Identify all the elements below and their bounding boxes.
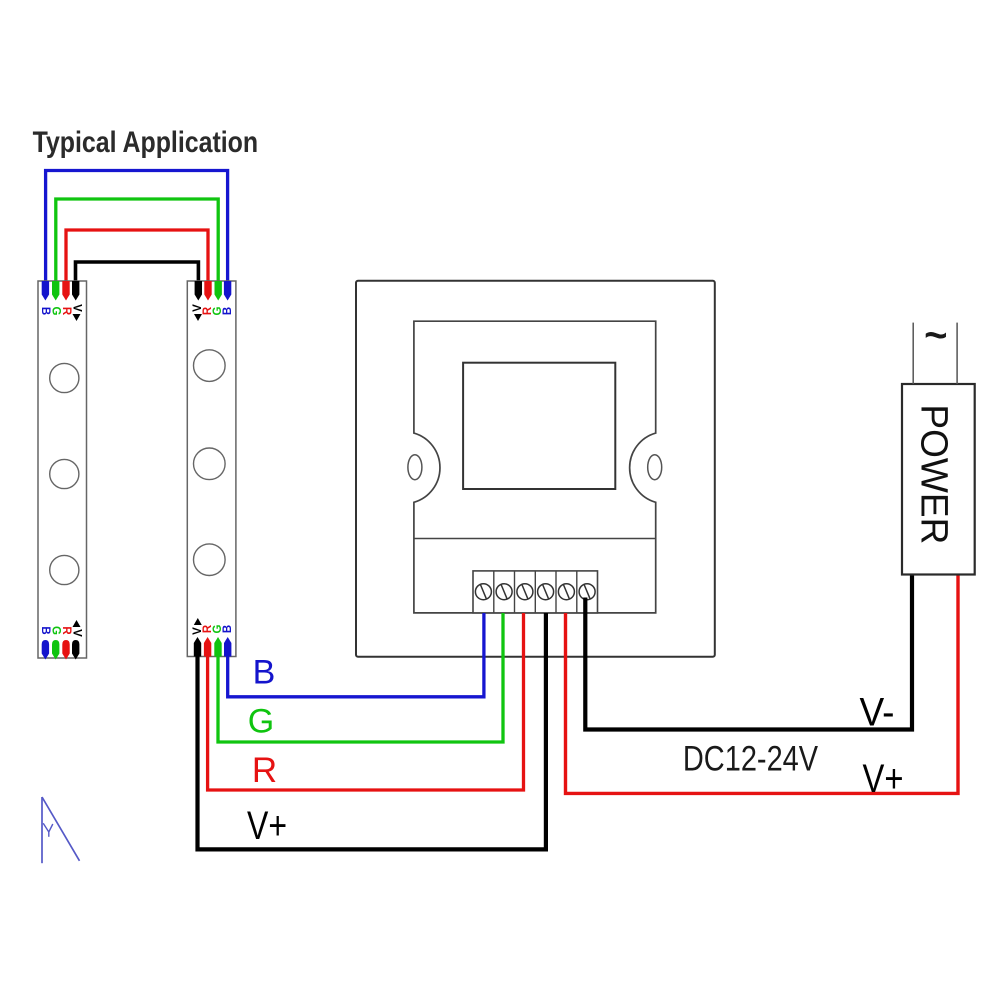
screw slot right — [648, 455, 662, 480]
svg-text:B: B — [39, 626, 51, 634]
terminal block TB1 — [473, 571, 598, 613]
controller U1 outer plate — [356, 281, 715, 657]
LS2 top V+ arrow — [194, 314, 202, 321]
svg-text:G: G — [50, 626, 62, 635]
LS1 top pin V+ — [72, 281, 79, 301]
display window — [463, 363, 615, 489]
svg-text:B: B — [253, 654, 276, 692]
LS2 bottom connector — [192, 618, 234, 657]
svg-text:R: R — [60, 307, 72, 316]
LS2 hole 2 — [194, 448, 226, 480]
svg-text:V: V — [70, 629, 82, 637]
LS2 top pin B — [224, 281, 231, 301]
LS2 bottom pin R — [204, 637, 211, 657]
wire B strip-to-strip — [46, 171, 228, 283]
LS1 top pin R — [62, 281, 69, 301]
svg-text:G: G — [50, 307, 62, 316]
wire V+ controller-to-power — [566, 575, 959, 794]
wire V+ strip-to-controller — [198, 613, 546, 849]
LS1 top V+ arrow — [73, 314, 81, 321]
svg-text:B: B — [39, 307, 51, 315]
LS2 top pin G — [215, 281, 222, 301]
svg-text:V-: V- — [860, 691, 895, 735]
svg-text:B: B — [222, 625, 234, 633]
AC cord line right — [956, 323, 958, 384]
svg-text:Typical Application: Typical Application — [33, 126, 259, 159]
wire V- controller-to-power — [585, 575, 912, 730]
LS1 hole 3 — [50, 555, 79, 584]
LS1 top pin B — [42, 281, 49, 301]
wire G strip-to-strip — [56, 199, 218, 282]
svg-text:POWER: POWER — [913, 404, 955, 544]
svg-text:B: B — [222, 307, 234, 315]
LS1 hole 1 — [50, 363, 79, 392]
LS2 hole 1 — [194, 350, 226, 382]
LED strip LS1 body — [38, 281, 87, 658]
LS1 hole 2 — [50, 459, 79, 488]
wire V+ strip-to-strip — [76, 262, 199, 282]
power supply PS1 body — [902, 384, 975, 575]
terminal 5 screw — [558, 584, 574, 600]
terminal 4 screw — [538, 584, 554, 600]
wire R strip-to-strip — [66, 230, 208, 282]
LS2 top pin R — [204, 281, 211, 301]
controller faceplate outline — [414, 321, 656, 613]
LS1 bottom pin B — [42, 640, 49, 660]
svg-text:R: R — [252, 751, 277, 790]
cursor watermark — [42, 797, 80, 863]
svg-text:V: V — [70, 304, 82, 312]
screw slot left — [408, 455, 422, 480]
LS2 hole 3 — [194, 544, 226, 576]
svg-text:DC12-24V: DC12-24V — [683, 740, 819, 779]
LS1 bottom pin V+ — [72, 640, 79, 660]
LED strip LS2 body — [187, 281, 236, 657]
svg-text:V+: V+ — [863, 757, 904, 801]
LS2 top pin V+ — [195, 281, 202, 301]
svg-text:V+: V+ — [247, 804, 287, 848]
svg-text:G: G — [248, 703, 274, 741]
LS1 bottom pin R — [62, 640, 69, 660]
LS1 bottom V+ arrow — [73, 620, 81, 627]
svg-text:R: R — [60, 626, 72, 635]
wire B strip-to-controller — [228, 613, 484, 697]
terminal 1 screw — [475, 584, 491, 600]
LS1 bottom pin G — [52, 640, 59, 660]
LS2 bottom V+ arrow — [194, 618, 202, 625]
faceplate divider — [414, 538, 656, 540]
LS1 top connector — [39, 281, 82, 321]
wire G strip-to-controller — [218, 613, 503, 742]
wire R strip-to-controller — [208, 613, 524, 790]
LS1 top pin G — [52, 281, 59, 301]
terminal 6 screw — [579, 584, 595, 600]
AC cord line left — [912, 323, 914, 384]
LS2 bottom pin G — [214, 637, 221, 657]
terminal 3 screw — [517, 584, 533, 600]
LS2 bottom pin B — [224, 637, 231, 657]
terminal 2 screw — [496, 584, 512, 600]
LS1 bottom connector — [39, 620, 82, 660]
svg-text:~: ~ — [924, 314, 947, 358]
LS2 top connector — [192, 281, 234, 321]
LS2 bottom pin V+ — [194, 637, 201, 657]
